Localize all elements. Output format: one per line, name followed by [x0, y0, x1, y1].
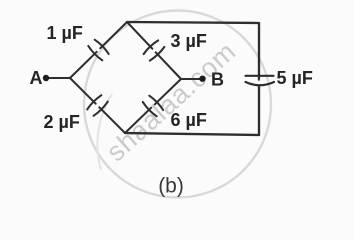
svg-text:1 µF: 1 µF: [47, 23, 83, 43]
svg-text:3 µF: 3 µF: [171, 31, 207, 51]
wire right vertical upper: [258, 23, 260, 78]
wire top vertex to 3uF: [127, 22, 152, 49]
capacitor C5 5uF curved bottom plate: [246, 82, 275, 85]
svg-text:5 µF: 5 µF: [277, 68, 313, 88]
wire 6uF to node B junction: [155, 79, 181, 104]
capacitor C1 1uF plate b: [95, 40, 109, 54]
wire 3uF to node B junction: [156, 52, 181, 79]
watermark circle: [84, 11, 271, 198]
svg-text:A: A: [30, 68, 43, 88]
wire A lead: [49, 77, 70, 79]
capacitor C5 5uF top plate: [246, 75, 274, 77]
wire bottom vertex to 6uF: [125, 108, 151, 133]
svg-text:(b): (b): [158, 174, 184, 197]
capacitor C1 1uF plate a: [88, 46, 102, 60]
wire top horizontal: [127, 22, 259, 23]
wire 2uF to bottom vertex: [99, 107, 125, 133]
wire right vertical lower: [258, 86, 260, 136]
watermark inner arc: [97, 94, 112, 170]
capacitor C4 6uF plate b: [149, 96, 163, 110]
capacitor C3 2uF plate a: [87, 95, 101, 109]
node B dot: [199, 76, 205, 82]
wire 1uF to top vertex: [100, 22, 127, 48]
capacitor C4 6uF plate a: [143, 102, 157, 116]
wire A to 2uF: [70, 78, 96, 104]
svg-text:2 µF: 2 µF: [44, 112, 80, 132]
svg-text:6 µF: 6 µF: [171, 110, 207, 130]
capacitor C3 2uF plate b: [94, 102, 108, 116]
wire overshoot below C5 top plate: [258, 76, 260, 80]
wire B lead: [181, 78, 200, 80]
capacitor C2 3uF plate b: [150, 47, 165, 61]
svg-text:B: B: [211, 70, 224, 90]
wire A to 1uF plate: [70, 52, 97, 78]
wire bottom horizontal: [125, 133, 259, 135]
node A dot: [43, 75, 49, 81]
capacitor C2 3uF plate a: [144, 40, 159, 54]
